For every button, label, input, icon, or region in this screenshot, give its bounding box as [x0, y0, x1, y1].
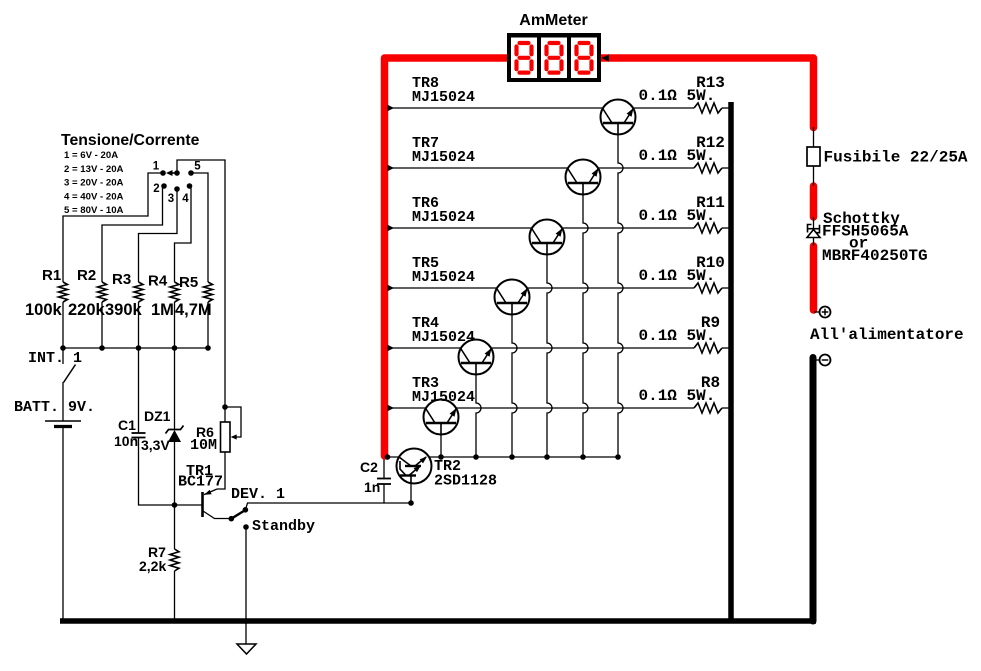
svg-text:Standby: Standby	[252, 518, 315, 535]
node: TR6 base junction on bus	[544, 454, 550, 460]
ground symbol	[237, 644, 256, 654]
arrowhead: TR6 collector wire start	[388, 225, 395, 231]
node: TR8 base junction on bus	[615, 454, 621, 460]
svg-text:MJ15024: MJ15024	[412, 389, 475, 406]
node: R6 top / wiper junction	[222, 404, 228, 410]
wire: red segment schottky to + terminal	[810, 246, 818, 310]
wire: C1 bottom to TR1 base wire	[139, 438, 203, 506]
svg-text:4 = 40V - 20A: 4 = 40V - 20A	[64, 191, 124, 202]
svg-text:0.1Ω 5W.: 0.1Ω 5W.	[639, 327, 716, 345]
svg-text:3 = 20V - 20A: 3 = 20V - 20A	[64, 178, 124, 189]
svg-text:220k: 220k	[68, 301, 106, 319]
svg-text:2: 2	[153, 183, 159, 195]
resistor R5	[204, 282, 213, 302]
selector contact 2	[161, 183, 167, 189]
svg-text:MJ15024: MJ15024	[412, 209, 475, 226]
svg-text:0.1Ω 5W.: 0.1Ω 5W.	[639, 207, 716, 225]
schottky diode D1 FFSH5065A/MBRF40250TG	[807, 230, 820, 238]
wire: TR3 row (collector from red bus, emitter to R8)	[386, 407, 694, 409]
wire: battery to ground bus	[62, 427, 64, 621]
wire: R2 top lead to selector contact 2	[102, 186, 163, 282]
selector switch SW (Tensione/Corrente) contact 1	[160, 170, 166, 176]
selector contact 4	[187, 183, 193, 189]
terminal + (all'alimentatore)	[814, 311, 820, 313]
arrowhead: TR4 collector wire start	[388, 345, 395, 351]
arrowhead: TR8 collector wire start	[388, 105, 395, 111]
resistor R12 0.1ohm 5W	[694, 163, 722, 173]
resistor R2	[98, 282, 107, 302]
node: TR7 base junction on bus	[580, 454, 586, 460]
wire: R6 bottom to TR1 emitter	[217, 452, 225, 489]
svg-text:1M: 1M	[151, 301, 174, 319]
svg-text:3,3V: 3,3V	[141, 437, 170, 453]
transistor TR5 MJ15024 (NPN)	[495, 280, 530, 315]
svg-text:R4: R4	[148, 273, 168, 290]
wire: TR4 row (collector from red bus, emitter to R9)	[386, 347, 694, 349]
wire: TR3 base lead down to base bus (with wire hops)	[440, 423, 442, 457]
wire: R4 top lead to selector contact 4	[175, 186, 192, 282]
wire: through schottky	[813, 217, 815, 246]
wire: TR4 base lead down to base bus (with wire hops)	[476, 363, 481, 457]
svg-text:2SD1128: 2SD1128	[434, 473, 497, 490]
svg-text:0.1Ω 5W.: 0.1Ω 5W.	[639, 147, 716, 165]
R6 wiper loop	[225, 407, 241, 437]
terminal - (all'alimentatore)	[814, 359, 820, 361]
resistor R11 0.1ohm 5W	[694, 223, 722, 233]
svg-text:5 = 80V - 10A: 5 = 80V - 10A	[64, 205, 124, 216]
svg-text:INT. 1: INT. 1	[28, 350, 82, 367]
wire: DEV.1 to TR2 base / C2	[245, 503, 411, 510]
svg-text:All'alimentatore: All'alimentatore	[810, 326, 964, 344]
svg-text:R3: R3	[112, 271, 131, 288]
svg-text:AmMeter: AmMeter	[519, 12, 587, 29]
wire: TR8 row (collector from red bus, emitter to R13)	[386, 107, 694, 109]
resistor R8 0.1ohm 5W	[694, 403, 722, 413]
svg-text:390k: 390k	[105, 301, 143, 319]
ammeter display (AmMeter)	[507, 33, 601, 82]
svg-text:MJ15024: MJ15024	[412, 329, 475, 346]
svg-text:R5: R5	[179, 274, 198, 291]
wire: red positive bus from AmMeter to collectors	[385, 58, 508, 456]
selector common wiper	[174, 170, 180, 176]
wire: base bus y=457 (TR2 emitter to TR3..TR8 bases)	[385, 456, 618, 458]
svg-text:2,2k: 2,2k	[139, 558, 166, 574]
wire: TR5 base lead down to base bus (with wire hops)	[512, 303, 517, 457]
svg-text:DZ1: DZ1	[144, 408, 171, 424]
capacitor C1 10n	[132, 432, 146, 434]
transistor TR7 MJ15024 (NPN)	[566, 160, 601, 195]
svg-text:0.1Ω 5W.: 0.1Ω 5W.	[639, 387, 716, 405]
switch DEV. 1 common contact	[229, 516, 235, 522]
svg-text:0.1Ω 5W.: 0.1Ω 5W.	[639, 87, 716, 105]
svg-text:5: 5	[194, 161, 201, 173]
wire: standby contact to ground	[245, 527, 247, 644]
svg-text:R2: R2	[77, 267, 96, 284]
svg-text:0.1Ω 5W.: 0.1Ω 5W.	[639, 267, 716, 285]
node: TR2 base junction	[408, 500, 414, 506]
wire: R5 top lead to selector contact 5	[191, 173, 208, 282]
svg-text:2 = 13V - 20A: 2 = 13V - 20A	[64, 164, 124, 175]
svg-text:1 = 6V - 20A: 1 = 6V - 20A	[64, 150, 118, 161]
svg-text:C1: C1	[118, 417, 136, 433]
DEV.1 upper contact	[243, 507, 249, 513]
wire: through fuse	[813, 127, 815, 186]
transistor TR3 MJ15024 (NPN)	[424, 400, 459, 435]
DEV.1 standby contact	[243, 524, 249, 530]
transistor TR6 MJ15024 (NPN)	[530, 220, 565, 255]
wire: selector common to R6 top	[177, 160, 225, 422]
wire: TR5 row (collector from red bus, emitter to R10)	[386, 287, 694, 289]
DEV.1 blade	[231, 510, 245, 519]
potentiometer R6 10M (body)	[224, 422, 226, 452]
svg-text:DEV. 1: DEV. 1	[231, 486, 285, 503]
wire: bottom ground bus (thick)	[60, 618, 816, 624]
resistor R7 2,2k	[170, 549, 179, 571]
TR1 collector	[203, 511, 231, 519]
transistor TR8 MJ15024 (NPN)	[601, 100, 636, 135]
wire: red segment fuse to schottky	[810, 186, 818, 217]
wire: red from AmMeter right to fuse column	[601, 58, 814, 128]
wire: TR6 base lead down to base bus (with wire hops)	[547, 243, 552, 457]
node: TR5 base junction on bus	[509, 454, 515, 460]
resistor R4	[170, 282, 179, 302]
svg-text:100k: 100k	[25, 301, 63, 319]
svg-text:10n: 10n	[114, 433, 138, 449]
svg-text:BATT. 9V.: BATT. 9V.	[14, 399, 95, 416]
wire: INT.1 to battery	[62, 382, 64, 421]
arrowhead: TR5 collector wire start	[388, 285, 395, 291]
node: red bus to TR2 collector / C2	[385, 454, 391, 460]
wire: TR2 base lead	[410, 476, 412, 503]
wire: node row down to C1	[138, 348, 140, 433]
arrowhead: TR7 collector wire start	[388, 165, 395, 171]
transistor TR2 2SD1128 (NPN darlington)	[397, 449, 432, 484]
TR1 emitter (arrow into base)	[204, 489, 217, 495]
svg-text:1n: 1n	[364, 479, 380, 495]
wire: negative output lead (thick)	[810, 358, 817, 622]
resistor R3	[134, 282, 143, 302]
arrowhead: current into ammeter	[602, 54, 610, 61]
selector contact 3	[174, 186, 180, 192]
wire: DZ1 bottom to TR1 base node	[174, 442, 176, 505]
wire: TR7 base lead down to base bus (with wire hops)	[583, 183, 588, 457]
switch INT. 1 (blade)	[64, 365, 76, 383]
wire: R1 top lead to selector contact 1	[63, 173, 163, 282]
svg-text:MBRF40250TG: MBRF40250TG	[822, 247, 928, 265]
wire: emitter-resistor collection bus (thick)	[728, 102, 734, 621]
selector contact 5	[188, 170, 194, 176]
capacitor C2 1n	[383, 457, 385, 478]
svg-text:Fusibile 22/25A: Fusibile 22/25A	[824, 149, 968, 167]
transistor TR1 BC177 (PNP) base bar	[201, 492, 204, 517]
resistor R1	[59, 282, 68, 302]
node: TR1 base junction	[172, 502, 178, 508]
wire: node row down to DZ1	[174, 348, 176, 430]
wire: node row to INT.1 switch	[62, 348, 64, 364]
svg-text:R1: R1	[42, 267, 61, 284]
wire: TR7 row (collector from red bus, emitter to R12)	[386, 167, 694, 169]
node: TR4 base junction on bus	[473, 454, 479, 460]
transistor TR4 MJ15024 (NPN)	[459, 340, 494, 375]
node row: R1-R5 bottoms common rail	[63, 347, 208, 349]
svg-text:C2: C2	[360, 459, 378, 475]
zener diode DZ1 3,3V	[166, 426, 184, 434]
svg-text:MJ15024: MJ15024	[412, 269, 475, 286]
svg-text:1: 1	[153, 161, 160, 173]
ammeter digits 888	[517, 43, 532, 73]
wire: TR6 row (collector from red bus, emitter to R11)	[386, 227, 694, 229]
svg-text:4: 4	[182, 193, 189, 205]
resistor R13 0.1ohm 5W	[694, 103, 722, 113]
wire: R3 top lead to selector contact 3	[139, 189, 178, 282]
battery BATT. 9V.	[45, 420, 81, 422]
node: standby/ground junction on bus	[243, 618, 249, 624]
svg-text:4,7M: 4,7M	[175, 301, 212, 319]
resistor R9 0.1ohm 5W	[694, 343, 722, 353]
svg-text:3: 3	[168, 193, 174, 205]
svg-text:Tensione/Corrente: Tensione/Corrente	[61, 132, 200, 149]
svg-text:BC177: BC177	[178, 474, 223, 491]
resistor R10 0.1ohm 5W	[694, 283, 722, 293]
arrowhead: TR3 collector wire start	[388, 405, 395, 411]
wire: TR8 base lead down to base bus (with wire hops)	[618, 123, 623, 457]
svg-text:MJ15024: MJ15024	[412, 89, 475, 106]
svg-text:MJ15024: MJ15024	[412, 149, 475, 166]
svg-text:10M: 10M	[190, 437, 217, 454]
fuse F1 Fusibile 22/25A	[807, 147, 820, 166]
node: TR3 base junction on bus	[438, 454, 444, 460]
